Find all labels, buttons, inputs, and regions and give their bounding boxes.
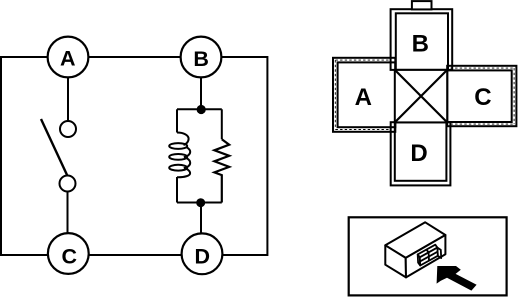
svg-text:D: D bbox=[410, 140, 427, 167]
svg-text:A: A bbox=[355, 84, 372, 111]
svg-text:C: C bbox=[474, 84, 491, 111]
svg-text:C: C bbox=[62, 245, 78, 269]
svg-text:B: B bbox=[412, 31, 429, 58]
svg-text:B: B bbox=[193, 47, 209, 71]
svg-text:D: D bbox=[195, 244, 211, 268]
svg-text:A: A bbox=[60, 46, 76, 70]
